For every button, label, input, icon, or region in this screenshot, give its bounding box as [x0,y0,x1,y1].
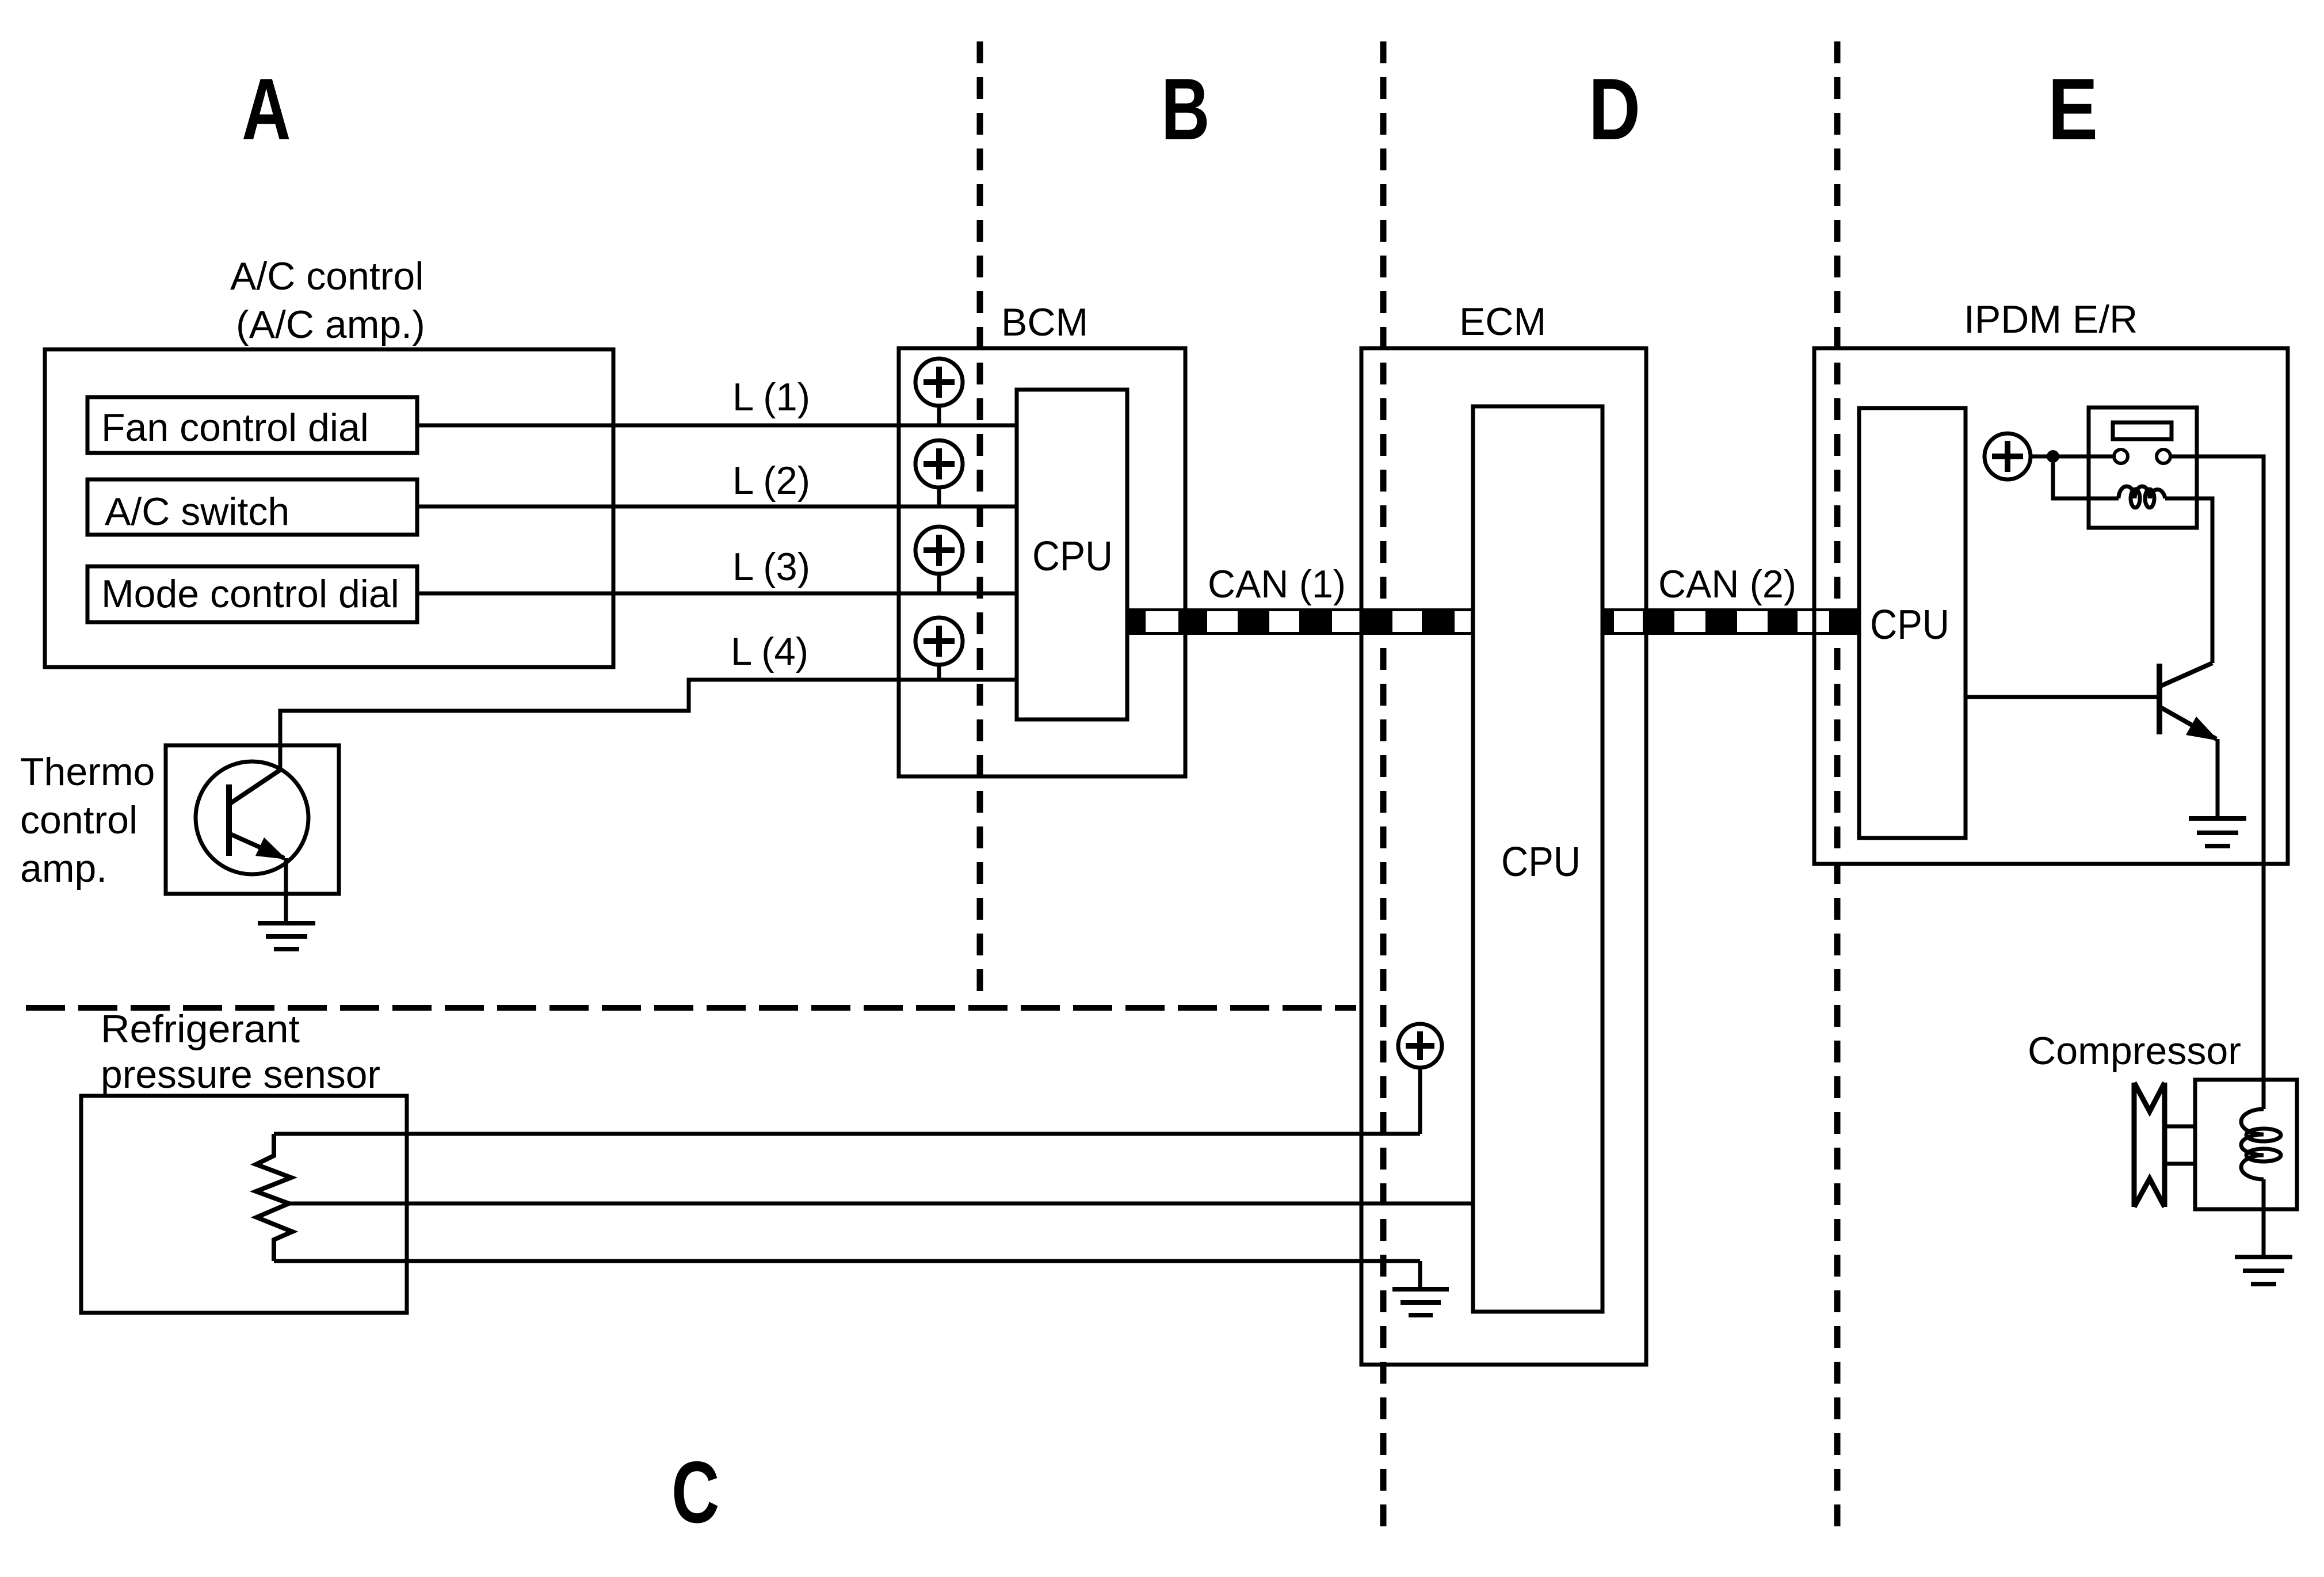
compressor pulley [2134,1083,2165,1207]
svg-text:CAN (1): CAN (1) [1208,562,1346,606]
svg-text:Compressor: Compressor [2028,1029,2241,1073]
svg-text:L (4): L (4) [731,630,808,673]
wire L1 fan dial to BCM CPU [417,424,1017,428]
Fan control dial box [87,397,417,453]
refrigerant pressure sensor box [81,1096,407,1313]
transistor Q in IPDM [2159,663,2219,741]
svg-text:Thermo: Thermo [20,750,155,794]
Mode control dial box [87,566,417,622]
svg-text:IPDM E/R: IPDM E/R [1964,298,2138,341]
svg-text:Mode control dial: Mode control dial [101,572,399,616]
compressor clutch coil [2241,1109,2281,1179]
svg-text:L (2): L (2) [732,459,810,502]
ground at thermo amp [258,923,315,949]
svg-text:B: B [1161,60,1210,158]
ground at ECM [1392,1289,1449,1315]
sensor wire supply [274,1132,1420,1136]
CAN (1) bus line [1127,608,1473,635]
svg-text:CAN (2): CAN (2) [1658,562,1796,606]
BCM terminal 1 [915,359,963,425]
thermo transistor [229,770,287,859]
svg-text:C: C [671,1443,719,1541]
IPDM transistor base wire from CPU [1966,695,2159,699]
ECM box [1361,348,1646,1365]
wire battery terminal to relay contact [2031,455,2114,459]
ECM CPU box [1473,406,1602,1312]
svg-text:E: E [2048,61,2098,158]
svg-text:A/C switch: A/C switch [105,490,289,534]
IPDM battery terminal [1985,433,2031,479]
wire junction down to relay coil [2053,456,2119,498]
BCM CPU box [1017,390,1127,719]
svg-text:CPU: CPU [1032,534,1113,580]
relay contact bar [2113,422,2172,439]
ground at compressor [2235,1257,2292,1284]
sensor resistor element [256,1134,292,1261]
svg-text:CPU: CPU [1870,602,1949,648]
sensor wire ground [274,1259,1420,1263]
svg-text:A/C control: A/C control [230,254,423,298]
zone boundary dashed line D/E [1834,41,1841,1537]
svg-text:L (3): L (3) [732,545,810,589]
thermo emitter wire down [284,858,288,923]
ECM terminal for sensor supply [1398,1024,1442,1134]
junction node [2047,450,2059,463]
sensor wire signal [289,1202,1473,1206]
svg-text:Fan control dial: Fan control dial [101,406,369,450]
relay coil [2119,486,2165,508]
relay contact right [2157,450,2170,463]
zone boundary dashed line B/D [1380,41,1387,1537]
wire relay contact to compressor feed [2170,456,2264,1080]
svg-text:A: A [242,60,291,158]
BCM terminal 2 [915,440,963,506]
BCM box [899,348,1185,776]
A/C control (A/C amp.) box [45,349,613,667]
svg-text:D: D [1589,60,1640,158]
thermo transistor circle [196,761,308,874]
svg-text:BCM: BCM [1001,300,1088,344]
svg-text:L (1): L (1) [732,375,810,419]
IPDM E/R box [1814,348,2288,864]
zone boundary dashed line A/B [977,41,983,1011]
svg-text:Refrigerant: Refrigerant [101,1007,300,1051]
svg-text:control: control [20,798,138,842]
svg-text:(A/C amp.): (A/C amp.) [236,303,425,346]
svg-text:amp.: amp. [20,847,107,890]
relay contact left [2114,450,2128,463]
relay box [2089,407,2197,528]
wire relay coil to transistor collector [2165,498,2212,663]
BCM terminal 4 [915,618,963,680]
IPDM CPU box [1859,408,1966,838]
wire L3 mode dial to BCM CPU [417,592,1017,596]
compressor coil feed wire [2262,1080,2266,1109]
pulley shaft links [2165,1125,2195,1129]
compressor box [2195,1080,2297,1209]
IPDM emitter wire down [2216,739,2220,818]
CAN (2) bus line [1602,608,1859,635]
wire L2 A/C switch to BCM CPU [417,505,1017,509]
ground in IPDM [2189,818,2246,846]
svg-text:CPU: CPU [1501,839,1581,885]
thermo control amp box [166,745,339,894]
compressor coil to ground wire [2262,1179,2266,1257]
svg-text:pressure sensor: pressure sensor [101,1053,380,1096]
svg-text:ECM: ECM [1459,300,1546,344]
A/C switch box [87,479,417,535]
ECM sensor ground stub [1418,1261,1422,1289]
zone boundary dashed line horizontal A/C [26,1005,1356,1011]
BCM terminal 3 [915,527,963,593]
wire L4 thermo amp to BCM CPU [280,680,1017,770]
